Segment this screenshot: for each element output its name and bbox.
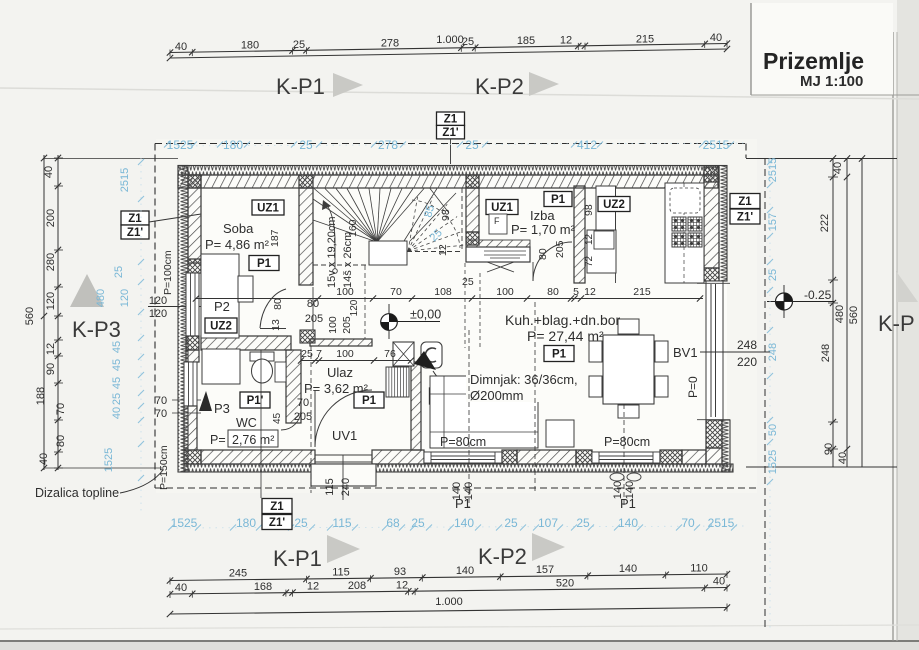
svg-text:BV1: BV1 — [673, 345, 698, 360]
tag P1 ulaz — [354, 392, 384, 408]
svg-text:25: 25 — [294, 516, 308, 530]
chimney label Dimnjak — [466, 372, 576, 402]
svg-text:Dizalica topline: Dizalica topline — [35, 486, 119, 500]
wall tag Z1/Z1 prime right — [730, 194, 760, 209]
svg-text:12: 12 — [584, 286, 596, 298]
corner block bottom-left crosshatch — [184, 450, 201, 464]
svg-text:P2: P2 — [214, 299, 230, 314]
level -0.25 marker — [776, 293, 793, 310]
svg-text:215: 215 — [636, 33, 654, 45]
wc toilet — [250, 352, 274, 361]
svg-text:222: 222 — [819, 214, 831, 232]
svg-text:25: 25 — [113, 266, 125, 278]
tag UZ2 living west — [430, 388, 463, 404]
window bottom wall 2 P=80 — [592, 452, 660, 463]
left wall crosshatch pier 2 — [186, 336, 199, 350]
svg-text:93: 93 — [394, 566, 406, 578]
interior wall W5 wc-ulaz — [286, 350, 301, 423]
svg-text:120: 120 — [119, 289, 131, 307]
svg-text:Dimnjak: 36/36cm,: Dimnjak: 36/36cm, — [470, 372, 578, 387]
section trace K-P2 line — [534, 302, 536, 492]
tag P1 prime wc — [240, 392, 270, 408]
svg-text:108: 108 — [434, 286, 452, 298]
svg-text:Izba: Izba — [530, 208, 555, 223]
svg-text:70: 70 — [681, 516, 695, 530]
stairs - cut dashed lines — [313, 264, 369, 266]
left wall lower masonry — [186, 350, 199, 362]
svg-text:25: 25 — [293, 39, 305, 51]
blue dimension row bottom — [170, 526, 745, 528]
svg-text:560: 560 — [24, 307, 36, 325]
svg-text:2515: 2515 — [708, 516, 735, 530]
svg-text:120: 120 — [349, 299, 360, 316]
svg-text:25: 25 — [465, 138, 479, 152]
faint scan fold lines — [0, 88, 919, 99]
svg-text:80: 80 — [547, 286, 559, 298]
svg-text:245: 245 — [229, 568, 247, 580]
svg-text:P= 4,86 m²: P= 4,86 m² — [205, 237, 270, 252]
svg-text:Prizemlje: Prizemlje — [763, 48, 864, 74]
chairs right — [655, 341, 668, 362]
svg-text:12: 12 — [307, 580, 319, 592]
svg-text:215: 215 — [633, 286, 651, 298]
svg-text:90: 90 — [45, 363, 57, 375]
outer wall right - masonry hatched — [704, 175, 719, 268]
svg-text:2515: 2515 — [767, 158, 779, 182]
svg-text:40: 40 — [713, 576, 725, 588]
interior wall W4 horizontal above WC — [201, 336, 291, 350]
svg-text:F: F — [494, 216, 500, 226]
kitchen sink — [670, 188, 700, 213]
svg-text:±0,00: ±0,00 — [410, 308, 441, 322]
svg-text:120: 120 — [149, 295, 167, 307]
svg-text:140: 140 — [618, 516, 638, 530]
bottom wall crosshatch pier 2 — [576, 450, 592, 464]
svg-text:80: 80 — [537, 248, 549, 260]
svg-text:K-P1: K-P1 — [276, 74, 325, 99]
wall tag Z1/Z1 prime bottom — [262, 499, 292, 514]
svg-text:1.000: 1.000 — [435, 596, 463, 608]
izba counter — [466, 247, 530, 262]
bottom wall crosshatch pier 3 — [660, 450, 682, 464]
tag UZ2 P2 — [205, 318, 237, 333]
svg-text:107: 107 — [538, 516, 558, 530]
kitchen zone boundary line — [615, 186, 617, 283]
section marker K-P right — [896, 271, 918, 302]
svg-text:UV1: UV1 — [332, 428, 357, 443]
svg-text:50: 50 — [767, 424, 779, 436]
svg-text:1.000: 1.000 — [436, 34, 464, 46]
svg-text:140: 140 — [619, 563, 637, 575]
corner block top-right crosshatch — [704, 167, 719, 182]
left extension lines — [44, 158, 178, 160]
wall tag Z1/Z1 prime top — [437, 112, 465, 126]
svg-text:25: 25 — [111, 393, 123, 405]
svg-text:160: 160 — [347, 219, 359, 237]
svg-text:80: 80 — [272, 298, 284, 310]
window bottom wall 1 P=80 — [424, 452, 502, 463]
outer wall left - insulation — [178, 166, 188, 473]
top dimension chain — [170, 44, 727, 53]
svg-text:412: 412 — [577, 138, 597, 152]
kitchen dresser — [587, 230, 616, 273]
svg-text:100: 100 — [327, 316, 339, 334]
svg-text:Kuh.+blag.+dn.bor: Kuh.+blag.+dn.bor — [505, 312, 621, 328]
outer wall bottom - masonry segment 3 — [517, 450, 576, 464]
entry door opening threshold — [315, 454, 372, 456]
svg-text:UZ1: UZ1 — [491, 202, 513, 214]
interior dim chain y298 — [196, 298, 703, 300]
svg-text:12: 12 — [437, 244, 449, 256]
wc shower — [202, 349, 240, 384]
right wall below window crosshatch — [706, 420, 722, 448]
svg-text:45: 45 — [111, 359, 123, 371]
outer wall bottom - masonry segment 2 — [372, 450, 424, 464]
svg-text:Z1': Z1' — [442, 127, 458, 139]
svg-text:12: 12 — [45, 343, 57, 355]
svg-text:205: 205 — [294, 411, 312, 423]
blue dimension column left — [140, 158, 142, 512]
svg-text:P=80cm: P=80cm — [604, 435, 650, 449]
izba counter legs X — [487, 262, 514, 272]
svg-text:P= 1,70 m²: P= 1,70 m² — [511, 222, 576, 237]
svg-text:WC: WC — [236, 416, 257, 430]
svg-text:205: 205 — [554, 240, 566, 258]
left wall crosshatch pier — [188, 259, 201, 273]
section marker K-P3 — [70, 274, 104, 307]
svg-text:70: 70 — [55, 403, 67, 415]
svg-text:70: 70 — [155, 408, 167, 420]
svg-text:187: 187 — [269, 229, 281, 247]
svg-text:12: 12 — [396, 579, 408, 591]
svg-text:120: 120 — [45, 292, 57, 310]
bottom dimension lines — [170, 574, 727, 581]
svg-text:248: 248 — [820, 344, 832, 362]
svg-text:P=0: P=0 — [686, 376, 700, 398]
svg-text:40: 40 — [111, 407, 123, 419]
outer wall bottom - masonry west segment — [201, 450, 315, 464]
roof outline dashed rectangle — [155, 143, 746, 145]
stairs - landing — [369, 241, 407, 265]
svg-text:1525: 1525 — [171, 516, 198, 530]
svg-text:480: 480 — [834, 305, 846, 323]
svg-text:K-P2: K-P2 — [475, 74, 524, 99]
building footprint white — [178, 165, 727, 472]
tag UZ2 kitchen — [598, 197, 630, 212]
small marks below bottom wall — [610, 473, 624, 481]
ulaz dim chain — [301, 360, 411, 362]
svg-text:P3: P3 — [214, 401, 230, 416]
svg-text:25: 25 — [576, 516, 590, 530]
svg-text:1525: 1525 — [767, 450, 779, 474]
svg-text:5: 5 — [573, 286, 579, 298]
svg-text:90: 90 — [823, 443, 835, 455]
blue tick marks right column — [767, 159, 773, 165]
izba door arc — [533, 242, 572, 281]
svg-text:25: 25 — [767, 269, 779, 281]
svg-text:180: 180 — [223, 138, 243, 152]
svg-text:7: 7 — [316, 348, 322, 360]
wall tag Z1/Z1 prime left — [121, 211, 149, 225]
svg-text:UZ1: UZ1 — [257, 203, 279, 215]
window left wall upper P=100 — [186, 273, 199, 336]
svg-text:70: 70 — [155, 395, 167, 407]
svg-text:278: 278 — [381, 37, 399, 49]
svg-text:-0.25: -0.25 — [804, 288, 832, 302]
wall stub above ulaz — [312, 287, 314, 330]
svg-text:P=: P= — [210, 433, 226, 447]
chairs left — [589, 341, 602, 362]
blue tick marks left column — [138, 159, 144, 165]
chair top — [618, 319, 639, 334]
svg-text:P1: P1 — [362, 395, 377, 407]
interior wall W2 stairs-izba — [466, 188, 479, 232]
svg-text:40: 40 — [43, 166, 55, 178]
blue dimension row top — [170, 143, 745, 146]
svg-text:278: 278 — [378, 138, 398, 152]
stairs - upper right treads — [404, 189, 437, 242]
svg-text:115: 115 — [332, 567, 350, 579]
plan area underlay — [156, 139, 757, 493]
room P2 closet — [201, 254, 239, 338]
svg-text:208: 208 — [348, 580, 366, 592]
tag P1 izba — [544, 192, 572, 207]
svg-text:25: 25 — [462, 276, 474, 288]
svg-text:115: 115 — [324, 478, 336, 496]
svg-text:P1: P1 — [551, 194, 566, 206]
svg-text:P=100cm: P=100cm — [162, 250, 174, 295]
svg-text:180: 180 — [241, 40, 259, 52]
svg-text:180: 180 — [236, 516, 256, 530]
kitchen counter projection dashed — [464, 263, 466, 348]
svg-text:248: 248 — [737, 338, 757, 352]
svg-text:Z1: Z1 — [128, 213, 142, 225]
wc door arc — [281, 410, 301, 430]
outer wall right - insulation — [719, 166, 727, 282]
outer wall left - masonry hatched — [188, 175, 201, 263]
svg-text:K-P3: K-P3 — [72, 317, 121, 342]
svg-text:40: 40 — [837, 452, 849, 464]
svg-text:72: 72 — [584, 255, 595, 267]
svg-text:P1: P1 — [257, 258, 272, 270]
svg-text:1525: 1525 — [167, 138, 194, 152]
svg-text:70: 70 — [390, 286, 402, 298]
svg-text:70: 70 — [297, 397, 309, 409]
svg-text:120: 120 — [149, 308, 167, 320]
level +-0.00 marker — [388, 304, 390, 339]
svg-text:K-P1: K-P1 — [273, 546, 322, 571]
blue tick marks top row — [164, 142, 170, 148]
kitchen counter right — [665, 183, 704, 283]
svg-text:P1: P1 — [455, 496, 471, 511]
kitchen stove burners — [672, 217, 686, 231]
interior wall W7 ulaz-living — [411, 362, 421, 450]
svg-text:Z1': Z1' — [269, 517, 285, 529]
svg-text:40: 40 — [175, 582, 187, 594]
wc basin — [275, 362, 286, 382]
chimney flue box — [393, 342, 414, 366]
right dimension chains — [832, 158, 834, 467]
right wall crosshatch pier — [704, 268, 719, 281]
interior wall W1 soba-stairs — [299, 188, 313, 285]
section trace lines — [310, 346, 312, 493]
P3 triangle marker — [199, 391, 212, 411]
svg-text:Z1: Z1 — [444, 114, 458, 126]
chair bottom — [618, 405, 639, 418]
svg-text:240: 240 — [340, 478, 352, 496]
svg-text:Ulaz: Ulaz — [327, 365, 353, 380]
svg-text:560: 560 — [848, 306, 860, 324]
outer wall top - masonry hatched — [178, 175, 718, 188]
tag UZ1 soba — [252, 200, 284, 215]
stairs - treads fan solid — [314, 189, 377, 243]
svg-text:157: 157 — [767, 213, 779, 231]
svg-text:157: 157 — [536, 564, 554, 576]
svg-text:140: 140 — [454, 516, 474, 530]
svg-text:K-P: K-P — [878, 311, 915, 336]
svg-text:15v x 19,20cm: 15v x 19,20cm — [326, 216, 338, 288]
svg-text:45: 45 — [272, 412, 283, 424]
svg-text:2,76 m²: 2,76 m² — [232, 433, 274, 447]
svg-text:110: 110 — [690, 562, 708, 574]
chimney arrow — [414, 351, 436, 370]
svg-text:12: 12 — [560, 35, 572, 47]
svg-text:480: 480 — [95, 289, 107, 307]
svg-text:P=80cm: P=80cm — [440, 435, 486, 449]
svg-text:100: 100 — [336, 286, 354, 298]
tag UZ1 izba — [486, 200, 518, 215]
svg-text:188: 188 — [35, 387, 47, 405]
outer wall top - insulation — [178, 166, 718, 176]
chimney leader and label — [433, 371, 467, 385]
svg-text:200: 200 — [45, 209, 57, 227]
svg-text:100: 100 — [496, 286, 514, 298]
svg-text:115: 115 — [332, 516, 351, 530]
svg-text:40: 40 — [832, 162, 844, 174]
svg-text:14š x 26cm: 14š x 26cm — [342, 232, 354, 288]
svg-text:Z1': Z1' — [737, 212, 753, 224]
tag P1 soba — [249, 256, 279, 271]
svg-text:98: 98 — [583, 204, 595, 216]
bottom wall crosshatch pier 1 — [502, 450, 517, 464]
svg-text:68: 68 — [386, 516, 400, 530]
blue tick marks bottom row — [168, 525, 174, 531]
door arc soba — [260, 289, 286, 328]
kitchen tall cabinet — [596, 186, 616, 230]
left wall lower masonry 2 — [184, 406, 197, 450]
svg-text:MJ 1:100: MJ 1:100 — [800, 73, 863, 90]
svg-text:76: 76 — [384, 348, 396, 360]
svg-text:UZ2: UZ2 — [210, 321, 232, 333]
title block — [751, 3, 893, 95]
svg-text:P=150cm: P=150cm — [158, 445, 170, 490]
stairs - walking line with arrow — [333, 269, 338, 274]
svg-text:P1: P1 — [620, 496, 636, 511]
hall boundary line below stairs — [364, 265, 366, 339]
svg-text:2515: 2515 — [119, 168, 131, 192]
right wall bottom masonry — [706, 448, 722, 464]
svg-text:100: 100 — [336, 348, 354, 360]
blue dimension column right — [769, 158, 771, 630]
svg-text:P1: P1 — [552, 349, 567, 361]
radiator ulaz — [386, 367, 409, 397]
svg-text:40: 40 — [175, 41, 187, 53]
izba counter hatch band — [466, 240, 530, 247]
window right wall BV1 — [706, 281, 723, 420]
svg-text:Z1: Z1 — [738, 196, 752, 208]
corner block top-left crosshatch — [188, 175, 201, 188]
svg-text:K-P2: K-P2 — [478, 544, 527, 569]
svg-text:205: 205 — [305, 313, 323, 325]
svg-text:45: 45 — [111, 341, 123, 353]
interior wall W6 top of ulaz — [310, 339, 372, 346]
sofa — [430, 376, 538, 448]
svg-text:80: 80 — [55, 435, 67, 447]
svg-text:Ø200mm: Ø200mm — [470, 388, 523, 403]
svg-text:140: 140 — [456, 565, 474, 577]
chimney round element — [421, 342, 442, 368]
svg-text:13: 13 — [270, 319, 282, 331]
svg-text:98: 98 — [440, 209, 452, 221]
svg-text:12: 12 — [584, 233, 595, 245]
svg-text:168: 168 — [254, 581, 272, 593]
svg-text:1525: 1525 — [103, 448, 115, 472]
svg-text:25: 25 — [504, 516, 518, 530]
entry porch step — [311, 464, 376, 486]
interior wall W3 izba-kitchen — [574, 186, 585, 283]
svg-text:45: 45 — [111, 377, 123, 389]
svg-text:205: 205 — [341, 316, 353, 334]
svg-text:25: 25 — [299, 138, 313, 152]
svg-text:220: 220 — [737, 355, 757, 369]
left dimension chains — [43, 155, 45, 470]
outer wall bottom - insulation — [184, 464, 733, 472]
svg-text:Z1: Z1 — [270, 501, 284, 513]
right wall outer insulation lower — [722, 420, 730, 472]
svg-text:185: 185 — [517, 35, 535, 47]
outer wall bottom - masonry east segment — [682, 450, 706, 464]
svg-text:UZ2: UZ2 — [603, 199, 625, 211]
window left wall lower P=150 — [184, 362, 197, 406]
stairs - dashed winders — [408, 245, 464, 251]
dining table — [603, 335, 654, 404]
svg-text:40: 40 — [710, 32, 722, 44]
svg-text:2515: 2515 — [703, 138, 730, 152]
svg-text:280: 280 — [45, 253, 57, 271]
side table sofa — [546, 420, 574, 447]
svg-text:520: 520 — [556, 577, 574, 589]
svg-text:Soba: Soba — [223, 221, 254, 236]
svg-text:40: 40 — [38, 453, 50, 465]
tag P1 kitchen — [544, 346, 574, 362]
